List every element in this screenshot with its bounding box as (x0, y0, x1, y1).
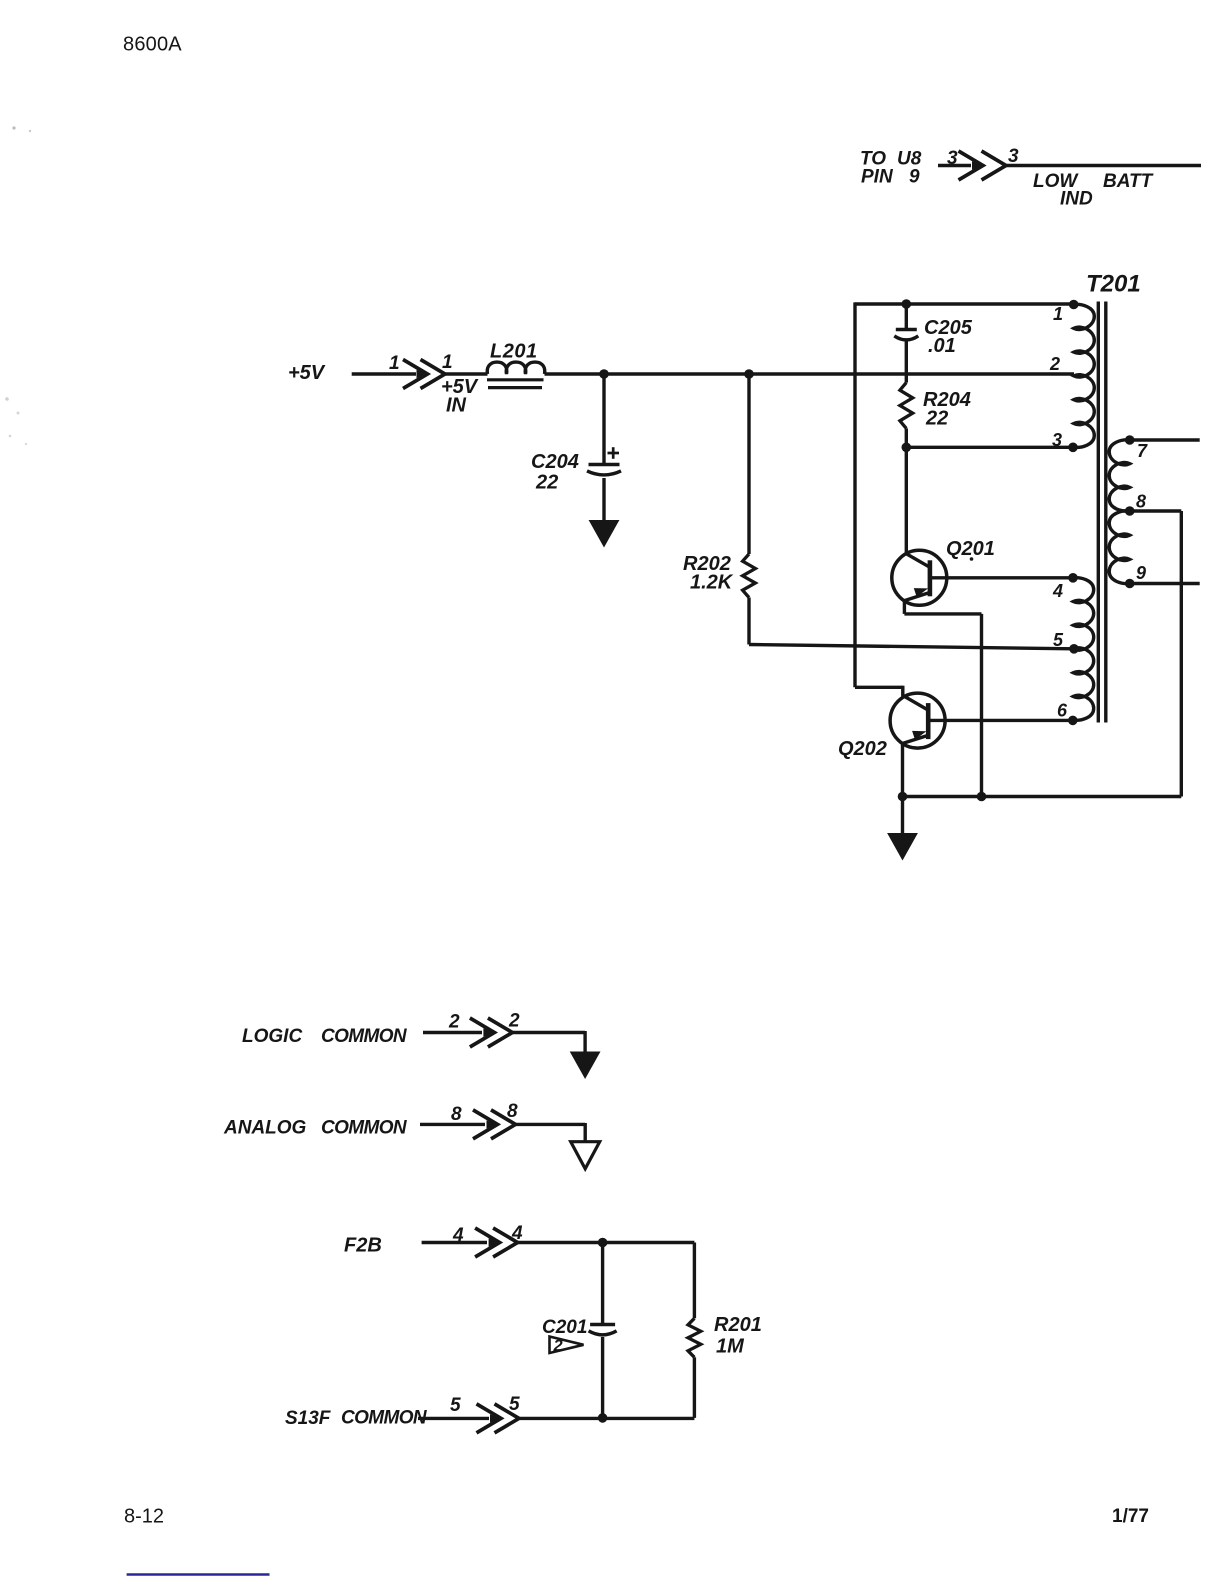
svg-text:5: 5 (509, 1394, 520, 1415)
svg-text:PIN: PIN (861, 167, 894, 188)
svg-text:4: 4 (1052, 581, 1063, 601)
svg-text:3: 3 (947, 148, 958, 169)
svg-text:7: 7 (1137, 441, 1148, 461)
svg-text:9: 9 (1136, 563, 1146, 583)
svg-text:22: 22 (535, 472, 558, 494)
svg-text:8: 8 (451, 1104, 462, 1125)
svg-text:1.2K: 1.2K (690, 572, 734, 594)
svg-text:5: 5 (450, 1395, 461, 1416)
svg-text:C201: C201 (542, 1317, 587, 1338)
svg-text:1: 1 (1053, 304, 1063, 324)
svg-text:9: 9 (909, 167, 920, 188)
svg-text:IND: IND (1060, 189, 1093, 210)
svg-text:2: 2 (508, 1011, 520, 1032)
svg-text:8: 8 (1136, 492, 1146, 512)
svg-text:.01: .01 (928, 335, 956, 357)
svg-text:IN: IN (446, 395, 467, 417)
svg-text:4: 4 (452, 1225, 464, 1246)
svg-text:3: 3 (1008, 146, 1019, 167)
svg-text:5: 5 (1053, 630, 1064, 650)
svg-text:2: 2 (553, 1337, 563, 1355)
svg-text:1: 1 (389, 353, 400, 374)
svg-text:COMMON: COMMON (321, 1118, 408, 1139)
svg-text:R201: R201 (714, 1314, 762, 1336)
svg-text:6: 6 (1057, 701, 1068, 721)
svg-text:8600A: 8600A (123, 34, 182, 56)
svg-text:Q202: Q202 (838, 738, 887, 760)
svg-text:+5V: +5V (288, 362, 326, 384)
svg-text:LOGIC: LOGIC (242, 1026, 302, 1047)
svg-text:1/77: 1/77 (1112, 1506, 1149, 1527)
svg-text:2: 2 (1049, 354, 1060, 374)
svg-text:ANALOG: ANALOG (223, 1118, 307, 1139)
svg-text:1M: 1M (716, 1336, 745, 1358)
svg-text:8-12: 8-12 (124, 1506, 164, 1528)
svg-text:1: 1 (442, 352, 453, 373)
svg-text:T201: T201 (1086, 271, 1141, 298)
svg-text:C204: C204 (531, 451, 579, 473)
svg-text:2: 2 (448, 1012, 460, 1033)
svg-text:S13F: S13F (285, 1408, 332, 1429)
svg-text:COMMON: COMMON (321, 1026, 408, 1047)
svg-text:Q201: Q201 (946, 538, 995, 560)
svg-text:L201: L201 (490, 341, 538, 363)
svg-text:F2B: F2B (344, 1235, 382, 1257)
svg-text:BATT: BATT (1103, 171, 1154, 192)
svg-text:3: 3 (1052, 430, 1062, 450)
svg-text:22: 22 (925, 408, 948, 430)
svg-text:8: 8 (507, 1101, 518, 1122)
svg-text:COMMON: COMMON (341, 1408, 428, 1429)
